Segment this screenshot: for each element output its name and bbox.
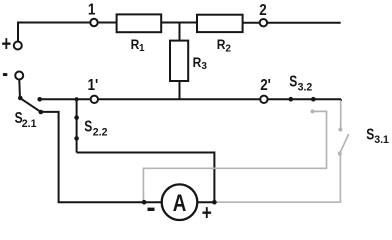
svg-text:1: 1 [139,43,145,54]
wire R1 to R2 through junction [161,22,197,24]
wire R3 bottom to 1' line [179,81,181,99]
switch S2.2 upper contact dot [74,115,79,120]
svg-text:2': 2' [260,77,271,94]
terminal + [14,42,22,50]
node 1' [91,96,98,103]
wire 1' line from S2.1 contact to right corner [40,98,341,100]
svg-text:S: S [84,117,92,135]
wire junction down to R3 [179,23,181,42]
node 2 [260,19,267,26]
switch S2.2 vertical wire (closed) [76,99,78,152]
svg-text:3.1: 3.1 [374,134,389,146]
gray wire from S3.2 alternate contact right, down, left, down to ammeter junction [143,111,326,202]
node 1 [90,19,97,26]
switch S3.1 blade (gray, open) [340,134,349,153]
svg-text:+: + [202,202,212,225]
svg-text:2: 2 [259,2,266,19]
svg-text:S: S [289,72,297,90]
wire node1 to R1 [98,22,117,24]
label - at ammeter left [148,208,155,211]
wire from S2.1 lower contact right and down to ammeter minus [41,112,162,202]
svg-text:R: R [217,36,226,52]
svg-text:2: 2 [225,43,231,54]
wire node 2 to right end [267,22,341,24]
svg-text:R: R [193,54,202,70]
svg-text:3.2: 3.2 [298,81,313,93]
resistor R1 [117,14,162,32]
switch S2.1 open contact dot on 1' line [37,97,42,102]
resistor R3 [170,41,188,81]
svg-text:+: + [2,33,12,56]
svg-text:3: 3 [201,61,207,72]
wire R2 to node 2 [243,22,260,24]
switch S3.1 upper wire (gray) [340,100,342,128]
junction dot S2.2 top on 1' line [75,97,79,101]
node 2' [260,96,267,103]
svg-text:S: S [366,125,374,143]
resistor R2 [197,15,243,32]
svg-text:1: 1 [88,1,96,18]
switch S3.1 upper contact dot (gray) [338,128,342,132]
terminal - [15,72,23,80]
svg-text:1': 1' [88,77,99,94]
junction dot at ammeter plus corner [212,200,217,205]
wire ammeter right to corner [197,201,214,203]
label - (negative terminal) [3,73,7,76]
switch S2.2 lower contact dot [74,136,79,141]
svg-text:R: R [131,36,140,52]
ammeter A [162,184,198,220]
switch S3.2 contact dot left (closed) [289,97,294,102]
switch S2.1 common contact dot [18,96,23,101]
switch S3.2 alternate throw contact dot (gray) [311,109,315,113]
switch S3.2 contact dot right (closed) [311,97,316,102]
svg-text:2.1: 2.1 [22,118,37,130]
svg-text:A: A [173,190,187,217]
wire from + terminal up and right to node 1 [18,23,90,42]
switch S2.1 blade [21,99,41,112]
switch S2.1 lower contact dot [39,110,44,115]
svg-text:2.2: 2.2 [93,126,108,138]
wire from - terminal down to switch S2.1 [18,80,21,97]
switch S3.1 pivot dot (gray) [338,152,342,156]
wire S2.2 bottom right then down to ammeter plus [77,153,215,203]
junction dot gray wire joins ammeter minus wire [142,200,147,205]
wire corner 1' line turning down at right [340,99,342,101]
gray wire from S3.1 pivot down and left to ammeter plus corner [214,155,340,203]
